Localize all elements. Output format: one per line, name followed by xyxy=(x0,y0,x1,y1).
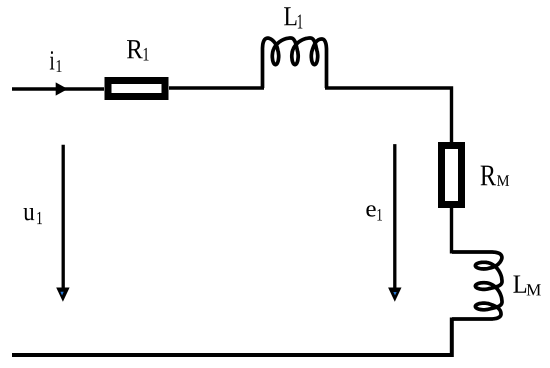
wire: L1 to top-right corner down to RM xyxy=(325,88,452,143)
label L1 sub xyxy=(298,15,303,29)
wire: R1 to L1 xyxy=(169,86,264,89)
label e1 main xyxy=(366,205,375,216)
label u1 sub xyxy=(37,212,42,224)
label R1 sub xyxy=(144,48,149,61)
label R1 main xyxy=(127,40,143,58)
label L1 main xyxy=(284,7,296,25)
label LM sub xyxy=(527,284,541,295)
voltage arrow u1 head xyxy=(56,288,69,302)
wire: LM to bottom rail xyxy=(12,318,452,356)
label i1 sub xyxy=(57,60,62,72)
blue cursor mark in e1 head xyxy=(393,292,396,295)
voltage arrow u1 line xyxy=(62,145,65,289)
resistor R1 xyxy=(108,81,165,97)
emf arrow e1 line xyxy=(393,144,396,289)
resistor RM xyxy=(442,146,462,205)
blue cursor mark in u1 head xyxy=(60,292,63,296)
emf arrow e1 head xyxy=(388,288,401,302)
label RM sub xyxy=(497,175,509,186)
inductor LM xyxy=(452,252,502,319)
label RM main xyxy=(481,166,496,186)
wire: RM to LM lead xyxy=(450,207,453,254)
label LM main xyxy=(513,276,526,293)
wire: left input lead xyxy=(12,87,104,90)
inductor L1 xyxy=(263,38,327,88)
label i1 main xyxy=(50,51,55,69)
current arrowhead i1 xyxy=(56,82,68,95)
label e1 sub xyxy=(377,209,382,221)
label u1 main xyxy=(24,208,35,220)
